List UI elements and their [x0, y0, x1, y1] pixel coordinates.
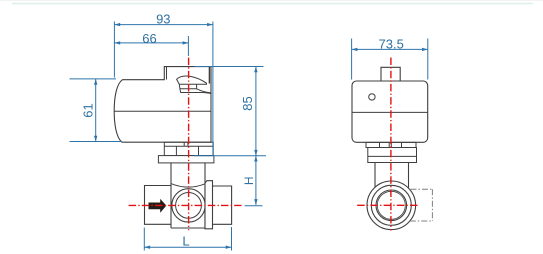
- dim 93 arrow left: [114, 23, 120, 26]
- hidden side port (dashed) right: [431, 189, 433, 221]
- valve neck left line: [170, 163, 172, 228]
- svg-text:93: 93: [156, 12, 170, 27]
- mounting plate split line: [368, 155, 417, 157]
- dome saddle arc: [171, 184, 205, 188]
- dim 73.5 line: [352, 48, 428, 50]
- dim 93 extension left: [113, 22, 115, 78]
- actuator seam line: [114, 110, 211, 112]
- page top border: [0, 0, 543, 2]
- dim 61 extension bottom: [70, 141, 122, 143]
- port inner circle: [176, 193, 202, 219]
- dim 73.5 arrow right: [422, 48, 428, 51]
- dim 73.5 extension left: [351, 39, 353, 80]
- svg-text:L: L: [182, 233, 189, 248]
- svg-text:H: H: [242, 176, 256, 185]
- svg-text:73.5: 73.5: [379, 36, 404, 51]
- thread circle: [377, 191, 405, 219]
- manual handle lower plate: [180, 89, 211, 94]
- actuator seam (side): [352, 111, 428, 113]
- neck (side) left: [374, 163, 376, 188]
- svg-text:85: 85: [240, 96, 255, 110]
- dim 61 arrow top: [94, 79, 97, 85]
- bore circle: [376, 190, 407, 221]
- hex nut facet right: [198, 146, 200, 155]
- dim 85/H shared extension: [194, 155, 266, 157]
- svg-text:61: 61: [80, 103, 95, 117]
- side-port flange plate (edge view): [205, 181, 213, 229]
- dim L extension right: [231, 227, 233, 251]
- indicator hole: [369, 94, 375, 100]
- actuator step inner right line: [208, 67, 210, 84]
- dim 93 arrow right: [207, 23, 213, 26]
- actuator box (side): [352, 81, 428, 142]
- centerline vertical (front): [188, 58, 190, 231]
- dim 66 line: [114, 42, 188, 44]
- svg-text:66: 66: [142, 31, 156, 46]
- dim 66 extension right: [187, 36, 189, 56]
- dim 85 arrow top: [254, 67, 257, 73]
- valve neck right line: [204, 163, 206, 229]
- dim 61 arrow bottom: [94, 136, 97, 142]
- dim 85 arrow bottom: [254, 150, 257, 156]
- port outer circle: [172, 189, 205, 222]
- pipe circle: [371, 185, 411, 225]
- hex nut facet left: [175, 146, 177, 155]
- manual handle wedge: [177, 76, 207, 84]
- actuator body outline (front): [114, 67, 211, 143]
- dim 93 line: [114, 24, 212, 26]
- manual handle right curve: [197, 89, 211, 93]
- dim 93 extension right: [212, 22, 214, 156]
- centerline horizontal (front): [129, 204, 242, 206]
- hidden side port (dashed) bottom: [410, 220, 433, 222]
- dim L line: [144, 246, 231, 248]
- left pipe: [145, 186, 172, 225]
- dim L arrow right: [226, 246, 232, 249]
- dim 61 extension top: [70, 78, 117, 80]
- hex nut top line: [164, 145, 213, 147]
- actuator step inner left line: [166, 67, 168, 80]
- valve body bottom: [171, 227, 205, 229]
- dim 73.5 extension right: [427, 39, 429, 80]
- dim 85 top extension: [195, 66, 264, 68]
- dim H arrow bottom: [254, 199, 257, 205]
- port flange outer circle: [367, 181, 416, 230]
- neck (side) right: [408, 163, 410, 188]
- right pipe: [213, 186, 232, 224]
- dim 85 line: [255, 67, 257, 156]
- mounting plate (side): [368, 148, 417, 163]
- dim 66 arrow left: [114, 41, 120, 44]
- centerline vertical (side): [390, 58, 392, 231]
- top accent line: [12, 3, 533, 5]
- centerline horizontal (side): [357, 204, 419, 206]
- dim H line: [255, 156, 257, 205]
- hex nut row (side): [366, 142, 416, 147]
- dim L arrow left: [144, 246, 150, 249]
- top knob: [381, 67, 400, 81]
- dim 66 arrow right: [183, 41, 189, 44]
- manual handle mid plate: [179, 84, 196, 89]
- dim H arrow top: [254, 156, 257, 162]
- flow arrow: [148, 198, 167, 215]
- mounting plate (front): [158, 156, 214, 163]
- dim H bottom extension: [245, 205, 263, 207]
- stem notch: [184, 142, 188, 146]
- dim 61 line: [95, 79, 97, 142]
- dim L extension left: [143, 228, 145, 251]
- hex facet marks: [380, 143, 402, 148]
- hidden side port (dashed) top: [411, 188, 433, 190]
- dim 73.5 arrow left: [352, 48, 358, 51]
- mounting hex nut row (front): [164, 142, 213, 155]
